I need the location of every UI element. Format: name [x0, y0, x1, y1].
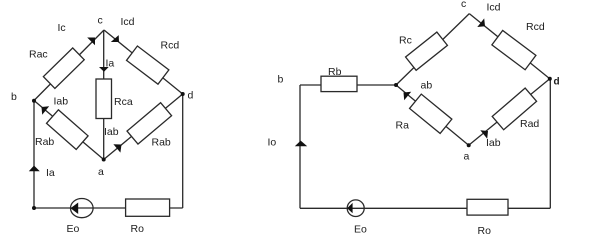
- svg-text:Io: Io: [268, 137, 277, 149]
- resistor Rcd right: [492, 30, 536, 69]
- resistor Rab left: [47, 110, 89, 150]
- rail junction dot left: [32, 206, 36, 210]
- wire c to d (right bridge): [469, 14, 550, 79]
- wire left vertex to c (right bridge): [396, 14, 469, 85]
- node left-vertex junction dot right circuit: [394, 83, 398, 87]
- current arrow Icd left: [111, 35, 119, 42]
- current arrow Ia left leg (up): [29, 166, 40, 172]
- current arrow Iab near b (up-left): [42, 106, 50, 114]
- source Eo right (ellipse): [347, 200, 364, 217]
- wire b down to rail: [33, 101, 35, 209]
- node d junction dot right: [548, 77, 552, 81]
- svg-text:Rca: Rca: [114, 96, 133, 108]
- node d junction dot: [181, 92, 185, 96]
- wire b corner to Rb (right circuit): [300, 84, 396, 86]
- svg-text:Rcd: Rcd: [161, 40, 180, 52]
- svg-text:Ic: Ic: [58, 22, 66, 34]
- svg-text:d: d: [554, 77, 560, 88]
- resistor Rac: [43, 48, 84, 88]
- svg-text:c: c: [461, 0, 466, 10]
- resistor Ro left: [126, 199, 170, 216]
- wire left leg right circuit: [299, 85, 301, 208]
- wire b-c (left bridge left-top arm): [34, 30, 104, 101]
- svg-text:Icd: Icd: [121, 16, 135, 28]
- svg-text:Rcd: Rcd: [526, 21, 545, 33]
- wire a-d (left bridge right-bottom arm): [104, 94, 183, 160]
- svg-text:Iab: Iab: [486, 137, 501, 149]
- wire d down to rail: [182, 94, 184, 208]
- wire c-a center branch: [103, 30, 105, 160]
- svg-text:Eo: Eo: [354, 224, 367, 236]
- svg-text:Rab: Rab: [35, 136, 54, 148]
- resistor Ra: [410, 94, 452, 133]
- svg-text:Ra: Ra: [396, 120, 410, 132]
- wire b-a (left bridge left-bottom arm): [34, 101, 104, 160]
- svg-text:Ia: Ia: [106, 57, 115, 69]
- current arrow Icd right (down-right): [477, 18, 485, 27]
- node a junction dot right: [467, 143, 471, 147]
- svg-text:Rb: Rb: [328, 66, 342, 78]
- svg-text:Rc: Rc: [399, 35, 412, 47]
- svg-text:a: a: [98, 166, 104, 178]
- wire bottom rail left circuit: [34, 207, 183, 209]
- current arrow ab (up-left): [404, 92, 412, 100]
- wire d down to rail right: [549, 79, 551, 209]
- resistor Ro right: [467, 199, 508, 215]
- svg-text:Ro: Ro: [478, 225, 492, 237]
- current arrow Ic: [87, 38, 95, 46]
- resistor Rad: [492, 88, 536, 130]
- wire left vertex to a (right bridge): [396, 85, 469, 145]
- resistor Rab right: [127, 103, 172, 144]
- svg-text:b: b: [11, 91, 17, 103]
- resistor Rca: [96, 79, 112, 119]
- svg-text:Iab: Iab: [104, 126, 119, 138]
- svg-text:Rab: Rab: [152, 137, 171, 149]
- resistor Rc: [406, 32, 448, 70]
- svg-text:Rac: Rac: [29, 49, 48, 61]
- svg-text:Iab: Iab: [54, 95, 69, 107]
- current arrow near a (up-right): [113, 144, 121, 152]
- current arrow in Eo right: [347, 203, 353, 213]
- current arrow in Eo left: [71, 203, 79, 215]
- source Eo left (ellipse): [71, 199, 94, 218]
- svg-text:b: b: [278, 74, 284, 86]
- current arrow Iab right (up-right): [480, 130, 488, 138]
- svg-text:Icd: Icd: [487, 2, 501, 14]
- wire bottom rail right circuit: [300, 207, 550, 209]
- node a junction dot: [102, 158, 106, 162]
- svg-text:Rad: Rad: [520, 118, 539, 130]
- svg-text:Eo: Eo: [67, 223, 80, 235]
- svg-text:Ia: Ia: [46, 167, 55, 179]
- svg-text:ab: ab: [421, 80, 433, 92]
- wire c-d (left bridge right-top arm): [104, 30, 183, 94]
- current arrow Io (up): [295, 141, 307, 147]
- resistor Rcd: [127, 46, 169, 84]
- resistor Rb: [321, 76, 357, 91]
- svg-text:d: d: [188, 90, 194, 102]
- svg-text:c: c: [98, 15, 103, 27]
- node b junction dot: [32, 99, 36, 103]
- current arrow Ia center (down): [99, 67, 109, 72]
- svg-text:a: a: [464, 151, 470, 163]
- wire a to d (right bridge): [469, 79, 550, 146]
- svg-text:Ro: Ro: [131, 223, 145, 235]
